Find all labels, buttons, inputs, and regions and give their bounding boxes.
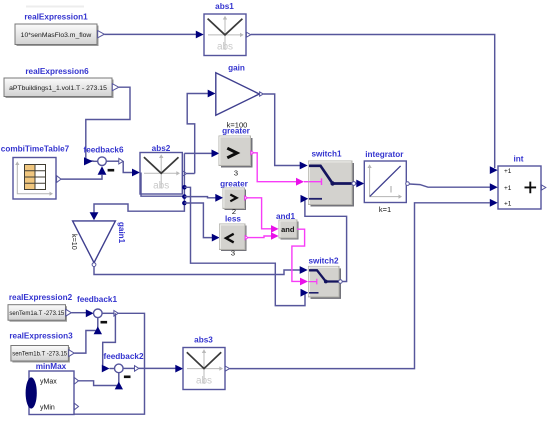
svg-text:and: and (281, 225, 295, 234)
svg-text:abs: abs (217, 42, 233, 53)
abs3 input port (175, 365, 183, 373)
svg-text:aPTbuildings1_1.vol1.T - 273.1: aPTbuildings1_1.vol1.T - 273.15 (9, 85, 107, 92)
svg-text:minMax: minMax (36, 362, 67, 371)
value 3 below less (231, 249, 235, 258)
abs2 (140, 153, 187, 195)
gain1 input port (90, 212, 99, 220)
feedback6 input port u2 (98, 166, 107, 175)
value 2 below greater2 (232, 207, 236, 216)
realExpression3 (11, 346, 74, 363)
svg-text:switch1: switch1 (311, 150, 341, 159)
wire dot3 to less.u (184, 203, 212, 238)
value k=100 (227, 120, 248, 129)
wire abs2.y stub (187, 173, 195, 175)
svg-text:greater: greater (222, 127, 251, 136)
svg-text:+1: +1 (504, 168, 512, 175)
combiTimeTable7 label (1, 144, 70, 153)
wire and1.y to switch2.u2 (pink) (292, 229, 305, 281)
svg-text:feedback6: feedback6 (83, 146, 123, 155)
value 3 below greater (234, 169, 238, 178)
wire switch2.y to switch1.u3 (305, 200, 347, 282)
and1 (279, 220, 299, 240)
wire dot2 to greater2.u (184, 197, 215, 198)
svg-text:less: less (225, 214, 241, 223)
switch1 input port u3 (301, 195, 309, 203)
node junction dot3 (182, 201, 187, 206)
svg-text:+1: +1 (504, 200, 512, 207)
abs3 label (194, 335, 213, 344)
realExpression6 (4, 78, 119, 98)
svg-text:realExpression2: realExpression2 (9, 293, 73, 302)
wire minMax.yMax to feedback2.u2 (79, 373, 119, 386)
realExpression2 (8, 305, 71, 322)
wire realExpression2.y to feedback1.u1 (71, 312, 86, 314)
gain1 label (117, 222, 126, 244)
svg-text:3: 3 (231, 249, 235, 258)
svg-text:abs1: abs1 (215, 2, 234, 11)
greater2 input port (215, 194, 223, 202)
switch2 input port u3 (301, 289, 309, 297)
wire abs3.y to int.u3 (230, 203, 490, 369)
svg-text:feedback1: feedback1 (77, 295, 117, 304)
value k=1 (379, 205, 391, 214)
feedback1 input port u1 (86, 309, 94, 317)
feedback6 (98, 157, 124, 172)
feedback2 input port u2 (115, 382, 123, 390)
switch1 label (311, 150, 341, 159)
wire gain.y to switch1.u1 (263, 94, 300, 166)
svg-text:switch2: switch2 (308, 257, 338, 266)
wire feedback1.y to minMax input (33, 313, 145, 414)
gain label (228, 64, 245, 73)
wire switch1.y to integrator.u (356, 180, 365, 188)
gain input port (208, 90, 216, 98)
realExpression6 label (25, 67, 89, 76)
wire feedback1.y to feedback2.u1 (103, 313, 116, 365)
int input port u2 (490, 183, 498, 191)
wire combiTimeTable7.y to feedback6.u2 (61, 175, 102, 179)
greater label (222, 127, 251, 136)
feedback2 label (103, 352, 143, 361)
wire gain1.y to switch2.u1 (94, 267, 300, 275)
int label (513, 155, 523, 164)
int input port u1 (490, 166, 498, 174)
svg-text:gain1: gain1 (117, 222, 126, 244)
feedback6 input port u1 (84, 157, 98, 165)
wire feedback2.y to abs3.u (139, 367, 176, 369)
switch1 input port u2 (pink) (296, 178, 308, 186)
svg-text:+1: +1 (504, 185, 512, 192)
realExpression2 label (9, 293, 73, 302)
combiTimeTable7 (13, 158, 61, 200)
svg-text:realExpression1: realExpression1 (24, 12, 88, 21)
and1 input port u1 (pink) (271, 225, 279, 233)
svg-text:10*senMasFlo3.m_flow: 10*senMasFlo3.m_flow (21, 32, 92, 39)
less label (225, 214, 241, 223)
wire dot1 to switch2.u3 (184, 187, 305, 305)
wire link abs2.u net to chain (141, 173, 184, 197)
minMax label (36, 362, 67, 371)
and1 input port u2 (pink) (271, 232, 279, 240)
svg-text:abs3: abs3 (194, 335, 213, 344)
switch2 label (308, 257, 338, 266)
svg-text:combiTimeTable7: combiTimeTable7 (1, 144, 70, 153)
svg-text:integrator: integrator (365, 150, 404, 159)
switch2 input port u1 (300, 266, 308, 274)
greater2 label (220, 180, 249, 189)
realExpression3 label (9, 332, 73, 341)
wire realExpression3.y to feedback1.u2 (74, 318, 98, 354)
switch2 input port u2 (pink) (300, 278, 308, 286)
abs2 label (152, 144, 171, 153)
switch1 (309, 161, 356, 207)
svg-text:senTem1a.T -273.15: senTem1a.T -273.15 (9, 311, 65, 317)
less (220, 224, 249, 251)
svg-text:realExpression3: realExpression3 (9, 332, 73, 341)
abs1 (204, 14, 251, 56)
svg-text:int: int (513, 155, 523, 164)
integrator label (365, 150, 404, 159)
int (498, 166, 546, 209)
greater2 (223, 188, 248, 210)
svg-text:feedback2: feedback2 (103, 352, 143, 361)
int input port u3 (490, 199, 498, 207)
top cut-off label artifact (26, 6, 84, 8)
abs1 input port (196, 31, 204, 39)
svg-text:senTem1b.T -273.15: senTem1b.T -273.15 (12, 352, 68, 358)
abs2 input port (132, 169, 140, 177)
wire realExpression1.y to abs1.u (104, 33, 196, 35)
svg-text:yMin: yMin (40, 404, 55, 411)
abs1 label (215, 2, 234, 11)
wire junction chain down (94, 153, 184, 212)
svg-text:3: 3 (234, 169, 238, 178)
value k=10 rotated (70, 234, 79, 250)
wire greater.y to switch1.u2 (pink) (254, 153, 296, 182)
feedback1 (94, 309, 119, 324)
wire feedback6.y to abs2.u (123, 161, 132, 172)
svg-text:abs: abs (196, 376, 212, 387)
node junction dot1 (182, 185, 187, 190)
svg-text:realExpression6: realExpression6 (25, 67, 89, 76)
svg-text:k=10: k=10 (70, 234, 79, 250)
svg-text:yMax: yMax (40, 378, 57, 385)
wire branch to greater.u (184, 152, 211, 154)
realExpression1 label (24, 12, 88, 21)
switch1 input port u1 (300, 162, 308, 170)
svg-text:gain: gain (228, 64, 245, 73)
feedback2 (115, 364, 139, 378)
svg-text:abs2: abs2 (152, 144, 171, 153)
less input port (212, 234, 220, 242)
node junction dot2 (182, 194, 187, 199)
and1 label (276, 212, 296, 221)
greater input port (212, 150, 220, 158)
minMax (26, 371, 79, 415)
wire integrator.y to int.u2 (409, 184, 490, 187)
wire greater2.y to and1.u1 (pink) (248, 198, 272, 229)
wire abs1.y to int.u1 (251, 35, 495, 169)
gain1 (73, 221, 116, 267)
integrator (364, 161, 409, 203)
wire abs2.y up to gain.u (187, 94, 208, 174)
realExpression1 (15, 24, 104, 46)
wire realExpression6.y to feedback6.u1 (86, 87, 130, 161)
feedback6 label (83, 146, 123, 155)
gain (216, 73, 263, 115)
feedback2 input port u1 (102, 365, 115, 373)
feedback1 input port u2 (94, 326, 102, 334)
svg-text:abs: abs (153, 181, 169, 192)
feedback1 label (77, 295, 117, 304)
abs3 (183, 348, 230, 390)
greater (219, 136, 254, 168)
svg-text:k=1: k=1 (379, 205, 391, 214)
switch2 (309, 266, 343, 299)
svg-text:greater: greater (220, 180, 249, 189)
wire less.y to and1.u2 (pink) (248, 236, 271, 238)
